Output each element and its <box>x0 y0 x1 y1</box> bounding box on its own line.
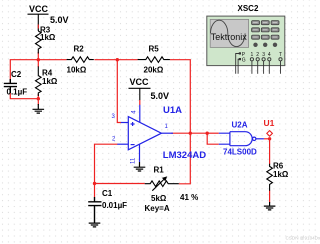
svg-text:10kΩ: 10kΩ <box>67 65 87 74</box>
wire C2 bottom to R4 ground node <box>10 92 38 99</box>
wire R2 right to mid junction <box>94 59 117 61</box>
wire mid junction to R5 left <box>117 59 137 61</box>
junction NAND inputs <box>206 132 209 135</box>
svg-text:G: G <box>242 58 246 64</box>
wire junction to R4 top <box>37 60 39 67</box>
svg-text:11: 11 <box>131 157 137 164</box>
wire NAND output to node U1 <box>264 138 270 140</box>
svg-text:1kΩ: 1kΩ <box>42 77 58 86</box>
svg-text:4: 4 <box>268 52 271 58</box>
junction node U1 <box>268 137 271 140</box>
ground under R6 <box>264 202 276 210</box>
wire node U1 to R6 top <box>269 139 271 164</box>
wire C1 node to R1 left <box>95 183 145 185</box>
svg-text:R2: R2 <box>74 45 85 54</box>
wire to NAND top input <box>207 132 219 134</box>
capacitor C1 <box>88 197 101 223</box>
svg-text:VCC: VCC <box>130 77 150 87</box>
wire C1 node down to C1 <box>94 184 96 198</box>
scope knobs <box>253 43 277 47</box>
wire op-amp output <box>171 132 207 134</box>
scope buttons <box>252 21 279 40</box>
svg-text:U1: U1 <box>264 118 275 128</box>
op-amp U1A <box>117 105 173 162</box>
wire to NAND bottom input <box>207 133 219 144</box>
potentiometer arrow <box>152 179 165 191</box>
wire mid junction down to op-amp pin 3 <box>117 60 121 123</box>
svg-text:C2: C2 <box>11 70 22 79</box>
svg-text:Tektronix: Tektronix <box>211 32 248 42</box>
ground under C1 <box>89 223 101 227</box>
wire R4 bottom to ground node <box>37 94 39 105</box>
svg-text:41 %: 41 % <box>180 193 198 202</box>
svg-text:U1A: U1A <box>163 105 182 116</box>
svg-text:0.01µF: 0.01µF <box>102 201 127 210</box>
junction C2 R4 ground <box>37 97 40 100</box>
wire C2 top branch <box>10 60 66 83</box>
svg-text:R1: R1 <box>154 166 165 175</box>
wire R5 right feedback down to R1 <box>170 60 190 184</box>
power VCC op-amp <box>129 88 151 100</box>
NAND gate U2A <box>219 132 264 146</box>
resistor R2 <box>67 57 94 63</box>
resistor R3 <box>36 31 42 54</box>
svg-text:Key=A: Key=A <box>145 204 170 213</box>
connector U1 <box>267 131 273 137</box>
power VCC top-left <box>28 14 49 31</box>
svg-text:LM324AD: LM324AD <box>163 150 206 161</box>
resistor R6 <box>267 164 273 191</box>
scope pin G <box>238 59 239 74</box>
wire op-amp pin 2 to C1 node <box>95 144 118 183</box>
svg-text:R5: R5 <box>149 45 160 54</box>
svg-text:3: 3 <box>262 52 265 58</box>
svg-text:VCC: VCC <box>29 4 49 14</box>
svg-text:C1: C1 <box>102 189 113 198</box>
ground under R4 <box>33 104 45 113</box>
potentiometer R1 <box>145 181 179 187</box>
svg-text:74LS00D: 74LS00D <box>223 148 257 157</box>
svg-text:5kΩ: 5kΩ <box>151 194 167 203</box>
svg-text:1kΩ: 1kΩ <box>40 33 56 42</box>
junction feedback output <box>189 132 192 135</box>
wire R6 bottom to ground <box>269 191 271 203</box>
ground under op-amp <box>134 162 146 171</box>
svg-text:XSC2: XSC2 <box>238 4 259 13</box>
svg-text:1: 1 <box>251 52 254 58</box>
resistor R4 <box>36 66 42 96</box>
junction C1 R1 <box>93 182 96 185</box>
wire VCC to R3 <box>37 25 39 29</box>
svg-text:1kΩ: 1kΩ <box>273 170 289 179</box>
capacitor C2 <box>4 79 17 93</box>
svg-text:0.1µF: 0.1µF <box>7 88 28 97</box>
svg-text:20kΩ: 20kΩ <box>144 65 164 74</box>
junction R2 R5 pin3 <box>116 58 119 61</box>
resistor R5 <box>138 57 170 63</box>
svg-text:5.0V: 5.0V <box>151 91 170 101</box>
svg-text:CSDN @9104Dx: CSDN @9104Dx <box>286 236 320 241</box>
scope screen <box>210 19 248 47</box>
wire VCC to op-amp pin 4 <box>139 100 141 105</box>
svg-text:U2A: U2A <box>232 121 248 130</box>
svg-text:5.0V: 5.0V <box>50 15 69 25</box>
scope sine wave <box>211 20 246 46</box>
svg-text:2: 2 <box>256 52 259 58</box>
scope pin P <box>236 54 240 74</box>
junction R3 R4 R2 <box>37 58 40 61</box>
svg-text:T: T <box>279 52 282 58</box>
wire R3 bottom to junction <box>37 52 39 60</box>
